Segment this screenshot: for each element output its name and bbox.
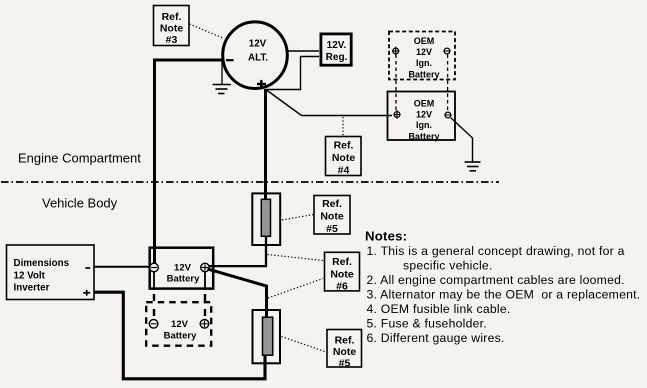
svg-text:Ref.: Ref. bbox=[162, 11, 182, 23]
svg-text:Ign.: Ign. bbox=[416, 120, 432, 130]
reference note box Note #5 lower bbox=[327, 330, 362, 370]
svg-text:OEM: OEM bbox=[414, 36, 435, 46]
svg-text:Vehicle Body: Vehicle Body bbox=[42, 196, 118, 211]
svg-text:#6: #6 bbox=[336, 281, 348, 293]
svg-text:Dimensions: Dimensions bbox=[14, 258, 70, 269]
svg-text:6. Different gauge wires.: 6. Different gauge wires. bbox=[367, 331, 505, 345]
svg-text:Ref.: Ref. bbox=[334, 140, 354, 152]
boundary line engine compartment / vehicle body bbox=[1, 181, 499, 183]
svg-text:Note: Note bbox=[160, 22, 183, 34]
wire alternator positive to OEM battery (fusible link) bbox=[267, 90, 393, 116]
leader OEM cable to Note #4 bbox=[342, 117, 344, 136]
leader wire to Note #6 lower bbox=[268, 279, 323, 299]
svg-text:12V.: 12V. bbox=[327, 40, 347, 51]
svg-text:12 Volt: 12 Volt bbox=[14, 271, 46, 282]
reference note box Note #5 bbox=[314, 196, 350, 236]
svg-text:1. This is a general concept d: 1. This is a general concept drawing, no… bbox=[367, 244, 625, 258]
svg-text:Note: Note bbox=[333, 346, 356, 358]
svg-text:#3: #3 bbox=[166, 34, 178, 46]
dashed lead right OEM battery bbox=[447, 55, 449, 112]
svg-text:12V: 12V bbox=[416, 47, 432, 57]
wire alternator positive down to fuse F1 (thick) bbox=[264, 89, 267, 199]
wire inverter positive to fuse F2 via floor (thick) bbox=[94, 292, 265, 379]
inverter box bbox=[7, 245, 95, 300]
alternator 12V ALT. bbox=[223, 22, 288, 89]
svg-text:Note: Note bbox=[320, 211, 343, 223]
wire alternator positive to regulator bbox=[266, 57, 319, 90]
svg-text:ALT.: ALT. bbox=[248, 52, 268, 63]
svg-text:Ref.: Ref. bbox=[335, 335, 355, 347]
dashed lead left OEM battery bbox=[395, 55, 397, 112]
svg-text:12V: 12V bbox=[171, 319, 189, 330]
inverter negative terminal label bbox=[85, 267, 90, 269]
lead battery positive down (solid then dashed) bbox=[204, 272, 206, 290]
svg-text:specific vehicle.: specific vehicle. bbox=[403, 258, 493, 272]
wire battery positive to fuse F2 (thick diagonal) bbox=[208, 269, 267, 317]
svg-text:Reg.: Reg. bbox=[326, 52, 348, 63]
svg-text:12V: 12V bbox=[174, 263, 192, 274]
fuse F1 holder bbox=[252, 193, 280, 245]
svg-text:Notes:: Notes: bbox=[365, 229, 407, 244]
wire OEM battery negative to ground bbox=[451, 118, 473, 162]
svg-text:5. Fuse & fuseholder.: 5. Fuse & fuseholder. bbox=[367, 316, 487, 330]
ground alternator bbox=[213, 60, 232, 94]
svg-text:OEM: OEM bbox=[414, 99, 435, 109]
svg-text:4. OEM fusible link cable.: 4. OEM fusible link cable. bbox=[367, 302, 511, 316]
svg-text:#5: #5 bbox=[326, 223, 338, 235]
svg-text:Note: Note bbox=[332, 152, 355, 164]
svg-text:3. Alternator may be the OEM: 3. Alternator may be the OEM or a replac… bbox=[367, 287, 641, 301]
svg-text:Inverter: Inverter bbox=[14, 283, 50, 294]
svg-text:Ign.: Ign. bbox=[416, 58, 432, 68]
dashed battery negative terminal bbox=[149, 320, 158, 329]
reference note box Note #4 bbox=[326, 137, 362, 177]
wire inverter negative to battery bbox=[94, 266, 150, 268]
OEM ignition battery dashed (alternate position) bbox=[389, 32, 455, 80]
leader fuse F1 to Note #5 bbox=[282, 215, 314, 221]
svg-text:Note: Note bbox=[330, 269, 353, 281]
wire alternator to regulator top bbox=[289, 50, 320, 52]
lead battery negative down (solid then dashed) bbox=[153, 272, 155, 290]
alternator negative terminal label bbox=[226, 59, 234, 61]
battery positive terminal bbox=[201, 263, 210, 272]
svg-text:Engine Compartment: Engine Compartment bbox=[18, 151, 141, 166]
svg-text:Battery: Battery bbox=[164, 330, 197, 341]
svg-text:Ref.: Ref. bbox=[332, 256, 352, 268]
svg-text:2. All engine compartment cabl: 2. All engine compartment cables are loo… bbox=[367, 273, 625, 287]
inverter positive terminal label bbox=[83, 290, 90, 296]
leader fuse F2 to Note #5 lower bbox=[282, 337, 327, 353]
12V auxiliary battery bbox=[150, 248, 214, 289]
svg-text:Battery: Battery bbox=[408, 132, 439, 142]
svg-text:Battery: Battery bbox=[408, 70, 439, 80]
dashed battery positive terminal bbox=[200, 320, 209, 329]
svg-text:Ref.: Ref. bbox=[322, 198, 342, 210]
leader Note #3 to alternator bbox=[190, 24, 225, 39]
alternator positive terminal label bbox=[257, 80, 266, 88]
voltage regulator 12V Reg. bbox=[321, 34, 351, 65]
svg-text:Battery: Battery bbox=[167, 274, 200, 285]
svg-text:12V: 12V bbox=[416, 109, 432, 119]
svg-text:12V: 12V bbox=[249, 39, 267, 50]
wire battery positive to fuse F1 bbox=[209, 237, 266, 266]
auxiliary battery dashed (optional second battery) bbox=[146, 302, 211, 346]
fuse F2 element bbox=[263, 317, 273, 355]
dashed battery positive terminal bbox=[392, 47, 399, 56]
OEM ignition battery bbox=[388, 92, 456, 142]
battery negative terminal bbox=[150, 263, 159, 272]
wire alternator negative to battery (thick) bbox=[155, 60, 222, 263]
fuse F2 holder bbox=[253, 310, 281, 363]
leader wire to Note #6 upper bbox=[268, 255, 324, 261]
reference note box Note #6 bbox=[325, 252, 360, 292]
dashed battery negative terminal bbox=[443, 48, 450, 54]
svg-text:#5: #5 bbox=[339, 358, 351, 370]
ground OEM battery bbox=[465, 162, 481, 171]
OEM battery negative terminal bbox=[444, 112, 451, 118]
svg-text:#4: #4 bbox=[338, 165, 350, 177]
fuse F1 element bbox=[261, 199, 270, 236]
reference note box Note #3 bbox=[154, 6, 190, 47]
OEM battery positive terminal bbox=[393, 110, 400, 119]
